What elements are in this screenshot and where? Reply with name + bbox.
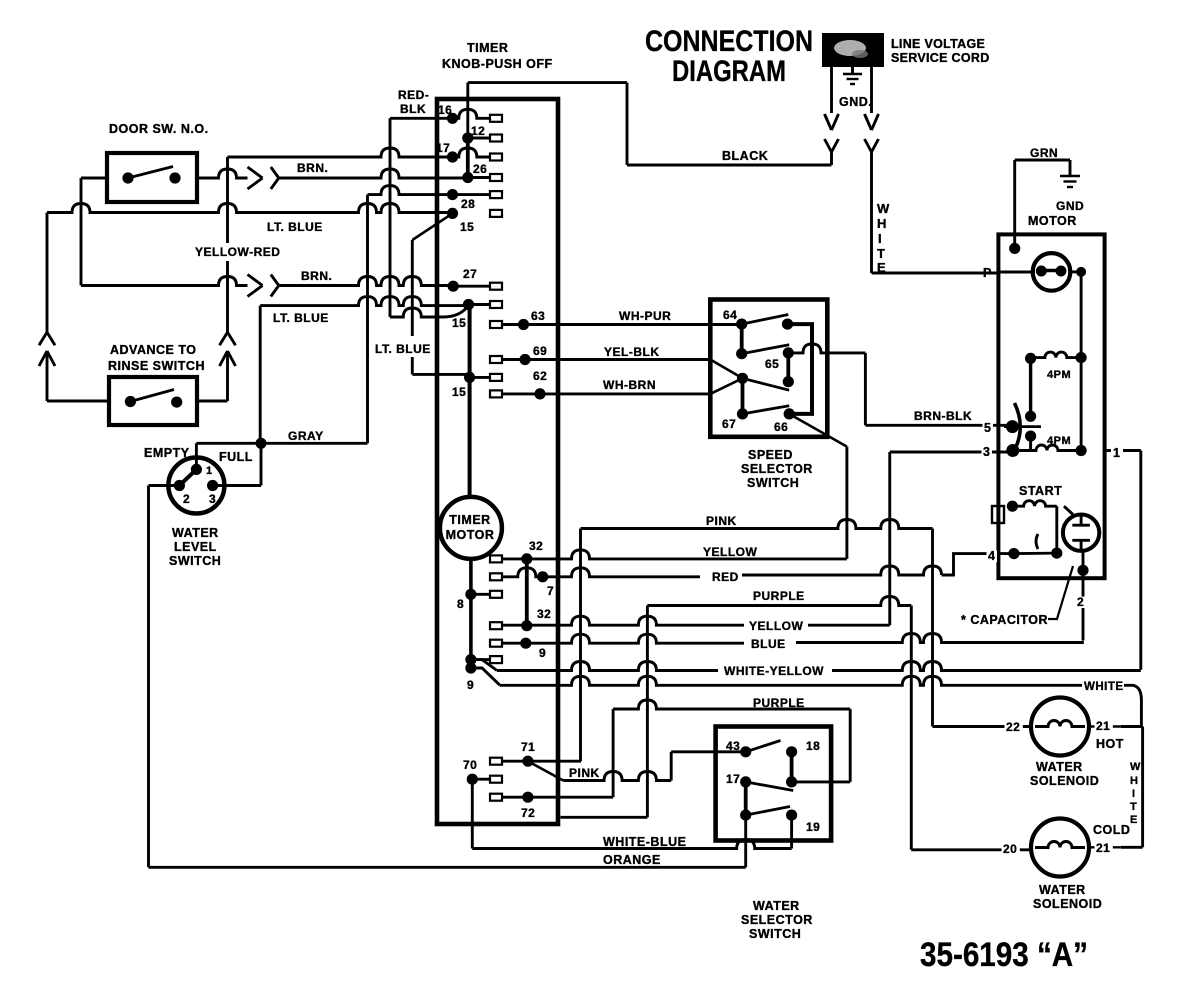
timer box TIMER KNOB-PUSH OFF [437, 41, 558, 824]
speed selector 64 lower contact [736, 324, 789, 359]
wire LT. BLUE: to timer 15 [47, 204, 453, 235]
timer terminal 28 [447, 189, 502, 211]
svg-text:5: 5 [984, 421, 991, 435]
svg-text:WATER: WATER [172, 526, 219, 540]
water solenoid hot [1005, 698, 1124, 789]
svg-text:18: 18 [806, 739, 820, 753]
timer terminal 63 / wire WH-PUR [490, 309, 742, 330]
node motor right bus top [1076, 267, 1086, 277]
wire timer 32a to 32b [525, 559, 529, 626]
svg-text:GRAY: GRAY [288, 429, 324, 443]
wire PINK upper [581, 514, 933, 761]
timer terminal 7 / wire RED [490, 554, 1014, 598]
svg-text:BLACK: BLACK [722, 149, 768, 163]
svg-text:PINK: PINK [569, 766, 600, 780]
timer terminal 15b [452, 299, 502, 330]
svg-text:9: 9 [539, 646, 546, 660]
svg-text:65: 65 [765, 357, 779, 371]
wire WHITE-YELLOW [471, 660, 1141, 678]
wire GRAY [261, 429, 368, 443]
svg-text:DOOR SW. N.O.: DOOR SW. N.O. [109, 122, 209, 136]
svg-text:RED-: RED- [398, 88, 429, 102]
svg-text:I: I [1132, 788, 1136, 800]
motor box [998, 214, 1104, 578]
connector on yellow-red wire [220, 332, 236, 401]
svg-text:62: 62 [533, 369, 547, 383]
wire pink riser to hot solenoid [933, 529, 1031, 727]
advance to rinse switch [47, 343, 228, 425]
motor centrifugal switch [983, 358, 1042, 450]
svg-text:67: 67 [722, 417, 736, 431]
svg-text:WATER: WATER [753, 899, 800, 913]
svg-text:BRN-BLK: BRN-BLK [914, 409, 972, 423]
svg-text:T: T [1130, 801, 1137, 813]
wire 66 to yellow row [789, 414, 847, 559]
wire PURPLE lower: 72 to selector 18 [528, 696, 850, 797]
water selector switch box [716, 727, 832, 942]
motor main winding upper 4PM [1025, 352, 1087, 381]
svg-text:64: 64 [723, 308, 737, 322]
svg-text:WHITE-BLUE: WHITE-BLUE [603, 835, 686, 849]
svg-text:BRN.: BRN. [301, 269, 332, 283]
svg-text:START: START [1019, 484, 1062, 498]
wire yellow riser to motor 3 [890, 452, 1013, 625]
svg-text:35-6193 “A”: 35-6193 “A” [920, 936, 1088, 974]
svg-text:15: 15 [452, 385, 466, 399]
svg-text:WHITE-YELLOW: WHITE-YELLOW [724, 664, 824, 678]
connector on left lt-blue wire [39, 213, 55, 402]
ground under service cord [839, 67, 872, 109]
timer terminal 70 [463, 758, 502, 785]
timer terminal 16 [438, 103, 502, 124]
svg-text:EMPTY: EMPTY [144, 446, 190, 460]
timer terminal 8 [457, 589, 502, 611]
svg-text:LT. BLUE: LT. BLUE [273, 311, 329, 325]
wire timer 71 riser pink [528, 760, 581, 763]
speed selector terminal 66 [774, 408, 795, 434]
wire WHITE: service cord to motor P [872, 152, 999, 275]
speed selector terminal 67 [722, 406, 789, 431]
door switch DOOR SW. N.O. [107, 122, 209, 202]
svg-text:CONNECTION: CONNECTION [645, 25, 813, 58]
wire WHITE to hot solenoid [471, 668, 1142, 727]
svg-text:63: 63 [531, 309, 545, 323]
svg-text:27: 27 [463, 267, 477, 281]
svg-text:1: 1 [206, 465, 213, 477]
selector terminal 43 [726, 739, 781, 757]
wire door switch left to lower BRN [81, 178, 107, 286]
wire BLACK: service cord to timer top [468, 83, 832, 165]
timer terminal 72 [490, 792, 535, 820]
svg-text:TIMER: TIMER [467, 41, 508, 55]
wire protector to main winding [1080, 272, 1083, 358]
svg-text:WH-BRN: WH-BRN [603, 378, 656, 392]
svg-text:I: I [878, 231, 882, 246]
svg-text:70: 70 [463, 758, 477, 772]
svg-text:26: 26 [473, 162, 487, 176]
svg-text:9: 9 [467, 678, 474, 692]
svg-text:SOLENOID: SOLENOID [1033, 897, 1102, 911]
svg-text:SWITCH: SWITCH [749, 927, 801, 941]
timer terminal 9 / wire BLUE [490, 634, 1084, 661]
wire LT. BLUE loop to timer 15 (second) [260, 297, 468, 444]
svg-text:LEVEL: LEVEL [174, 540, 217, 554]
motor start winding [1007, 484, 1062, 512]
svg-text:17: 17 [726, 772, 740, 786]
svg-text:SWITCH: SWITCH [747, 476, 799, 490]
svg-text:12: 12 [471, 124, 485, 138]
svg-text:MOTOR: MOTOR [446, 528, 495, 542]
wire BRN lower: to timer 27 [81, 269, 453, 297]
timer terminal 26 [462, 162, 502, 183]
wire 65 to BRN-BLK [788, 344, 1012, 425]
part number 35-6193 A [920, 936, 1088, 974]
motor protector [983, 253, 1081, 291]
svg-text:PURPLE: PURPLE [753, 589, 805, 603]
svg-text:4: 4 [988, 549, 995, 563]
timer terminal 9a [465, 654, 502, 665]
svg-text:W: W [877, 201, 890, 216]
svg-text:8: 8 [457, 597, 464, 611]
timer terminal 15c [452, 372, 502, 399]
wire timer motor to terminal 8 [469, 559, 473, 594]
svg-text:FULL: FULL [219, 450, 253, 464]
svg-text:DIAGRAM: DIAGRAM [672, 55, 786, 88]
wire timer internal 15 bus [468, 305, 472, 498]
svg-text:1: 1 [1113, 446, 1120, 460]
speed selector terminal 64 [723, 308, 788, 330]
svg-text:32: 32 [529, 539, 543, 553]
svg-text:RINSE SWITCH: RINSE SWITCH [108, 359, 205, 373]
selector terminal 19 [786, 810, 820, 835]
svg-text:WH-PUR: WH-PUR [619, 309, 671, 323]
svg-text:TIMER: TIMER [449, 513, 490, 527]
svg-text:17: 17 [436, 141, 450, 155]
svg-text:28: 28 [461, 197, 475, 211]
svg-text:66: 66 [774, 420, 788, 434]
svg-text:20: 20 [1003, 842, 1017, 856]
svg-text:KNOB-PUSH OFF: KNOB-PUSH OFF [442, 57, 553, 71]
svg-text:RED: RED [712, 570, 739, 584]
svg-text:E: E [877, 260, 886, 275]
water solenoid cold [1002, 819, 1131, 912]
motor start switch tab [992, 506, 1004, 523]
wire timer 12 to 26 [466, 138, 470, 178]
svg-text:22: 22 [1006, 720, 1020, 734]
selector terminal 17 [726, 772, 793, 821]
svg-text:SERVICE CORD: SERVICE CORD [891, 51, 990, 65]
wire WHITE-BLUE: timer 70 to selector 19 [472, 779, 791, 849]
svg-text:3: 3 [209, 492, 216, 506]
svg-text:72: 72 [521, 806, 535, 820]
svg-text:32: 32 [537, 607, 551, 621]
timer terminal 71 [490, 740, 535, 767]
svg-text:GND: GND [1056, 199, 1084, 213]
node gray junction [256, 438, 267, 449]
svg-text:WATER: WATER [1039, 883, 1086, 897]
svg-text:PURPLE: PURPLE [753, 696, 805, 710]
svg-text:COLD: COLD [1093, 823, 1130, 837]
svg-text:43: 43 [726, 739, 740, 753]
timer terminal 15a [447, 208, 502, 234]
svg-text:E: E [1130, 814, 1138, 826]
motor capacitor [1063, 506, 1099, 551]
svg-text:BLUE: BLUE [751, 637, 786, 651]
motor main winding lower 4PM [982, 358, 1087, 459]
wire purple riser to cold solenoid [911, 606, 1030, 850]
wire timer 28 stub [368, 186, 453, 195]
wire white vertical between solenoids [1121, 727, 1143, 848]
svg-text:H: H [1130, 775, 1138, 787]
connector: service cord white lead [865, 67, 879, 152]
svg-text:7: 7 [547, 584, 554, 598]
timer terminal 32b / wire YELLOW lower [490, 607, 890, 633]
wire PURPLE upper [561, 589, 912, 817]
connector: service cord black lead [825, 67, 839, 165]
svg-text:T: T [877, 246, 885, 261]
svg-text:2: 2 [183, 492, 190, 506]
svg-text:LT. BLUE: LT. BLUE [375, 342, 431, 356]
svg-text:BLK: BLK [400, 102, 426, 116]
svg-text:H: H [877, 216, 887, 231]
svg-text:BRN.: BRN. [297, 161, 328, 175]
svg-text:SELECTOR: SELECTOR [741, 462, 813, 476]
svg-text:16: 16 [438, 103, 452, 117]
wire timer 8 to 9 [469, 594, 473, 668]
timer terminal 9b [465, 662, 476, 692]
svg-text:SOLENOID: SOLENOID [1030, 774, 1099, 788]
svg-text:LINE VOLTAGE: LINE VOLTAGE [891, 37, 985, 51]
svg-text:15: 15 [452, 316, 466, 330]
svg-text:SPEED: SPEED [748, 448, 793, 462]
svg-text:4PM: 4PM [1047, 369, 1071, 381]
speed selector switch box [710, 300, 827, 491]
wire LT. BLUE vertical label to timer 15 (third) [375, 213, 470, 374]
timer terminal 62 / wire WH-BRN [490, 369, 710, 400]
svg-text:SWITCH: SWITCH [169, 554, 221, 568]
wire YELLOW-RED vertical [195, 157, 280, 332]
selector terminal 18 [786, 739, 820, 788]
svg-text:YELLOW: YELLOW [749, 619, 804, 633]
timer motor [440, 497, 502, 559]
speed selector terminal 65 [743, 347, 794, 390]
svg-text:19: 19 [806, 820, 820, 834]
wire RED-BLK bus [390, 88, 469, 317]
wire GRN to ground [1009, 146, 1084, 254]
svg-text:YELLOW: YELLOW [703, 545, 758, 559]
wire PINK lower: 71 to selector 43 [528, 752, 746, 781]
wire gray riser [366, 195, 369, 444]
wire capacitor terminal 2 [1076, 551, 1089, 643]
label capacitor [961, 566, 1073, 627]
wire ORANGE: water level 2 to selector 17 [149, 815, 746, 867]
wire timer 17 stub [228, 148, 453, 157]
svg-text:15: 15 [460, 220, 474, 234]
title CONNECTION DIAGRAM [645, 25, 813, 88]
svg-text:3: 3 [983, 445, 990, 459]
svg-text:PINK: PINK [706, 514, 737, 528]
svg-text:69: 69 [533, 344, 547, 358]
svg-text:GRN: GRN [1030, 146, 1058, 160]
wire BRN: door switch to timer 26 [197, 161, 468, 189]
motor start switch [987, 506, 1063, 563]
svg-text:2: 2 [1077, 595, 1084, 609]
water level switch [144, 446, 253, 568]
svg-text:GND.: GND. [839, 95, 872, 109]
line voltage service cord [822, 33, 990, 67]
timer terminal 27 [448, 267, 502, 292]
wire water level 3 to junction [213, 443, 261, 485]
svg-text:WHITE: WHITE [1084, 681, 1124, 693]
timer terminal 17 [436, 141, 502, 163]
wire water level 2 to orange run [149, 486, 180, 868]
svg-text:21: 21 [1096, 841, 1110, 855]
svg-text:4PM: 4PM [1047, 435, 1071, 447]
timer terminal 32a / wire YELLOW upper [490, 539, 847, 565]
speed selector contact top right [782, 319, 812, 414]
speed selector common node [710, 360, 748, 414]
svg-text:YEL-BLK: YEL-BLK [604, 345, 660, 359]
svg-text:YELLOW-RED: YELLOW-RED [195, 245, 280, 259]
wire water level 1 to gray junction [196, 443, 261, 469]
svg-text:SELECTOR: SELECTOR [741, 913, 813, 927]
timer terminal 69 / wire YEL-BLK [490, 344, 710, 365]
svg-text:W: W [1130, 761, 1141, 773]
timer terminal 12 [462, 124, 502, 144]
svg-text:P: P [983, 266, 992, 280]
svg-text:LT. BLUE: LT. BLUE [267, 220, 323, 234]
svg-text:71: 71 [521, 740, 535, 754]
svg-text:WATER: WATER [1036, 760, 1083, 774]
svg-text:21: 21 [1096, 719, 1110, 733]
svg-text:* CAPACITOR: * CAPACITOR [961, 613, 1048, 627]
svg-text:MOTOR: MOTOR [1028, 214, 1077, 228]
svg-text:ADVANCE TO: ADVANCE TO [110, 343, 197, 357]
svg-text:ORANGE: ORANGE [603, 853, 661, 867]
svg-text:HOT: HOT [1096, 737, 1124, 751]
wire motor terminal 1 [1105, 446, 1141, 670]
